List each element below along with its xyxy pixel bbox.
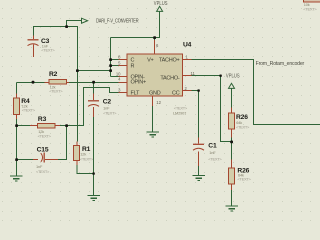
svg-text:TACHO-: TACHO- — [160, 75, 180, 81]
pin 12 stub — [152, 96, 154, 106]
capacitor C2 — [88, 101, 99, 107]
svg-text:<TEXT>: <TEXT> — [237, 176, 251, 181]
wire pin8 — [111, 59, 119, 61]
capacitor C15 (horizontal) — [41, 153, 44, 163]
svg-text:R3: R3 — [38, 116, 47, 123]
R3 leads — [30, 125, 60, 127]
wire R2 row y=81.8 — [17, 82, 119, 84]
wire R3row to C15 right — [58, 126, 67, 160]
node C2 top junction — [92, 81, 95, 84]
resistor R4 — [13, 98, 19, 115]
svg-text:R2: R2 — [49, 71, 58, 78]
pin 1 stub — [183, 59, 192, 61]
capacitor C1 — [193, 144, 204, 150]
component pin stubs (red) — [17, 36, 232, 191]
wire x110 vertical with pin branches — [110, 38, 112, 77]
wire pin6 link green part — [154, 38, 156, 41]
svg-text:<TEXT>: <TEXT> — [36, 169, 50, 174]
ground (C15/R4 net) — [10, 176, 23, 181]
wire R26b bottom — [231, 190, 233, 206]
ground (pin12) — [147, 132, 160, 137]
node x110/x77 junction — [109, 69, 112, 72]
node R26 junction — [230, 141, 233, 144]
pin 6 stub — [154, 40, 156, 54]
wire TACHO- to R26 junction — [192, 76, 232, 142]
svg-text:<TEXT>: <TEXT> — [41, 48, 55, 53]
svg-text:<TEXT>: <TEXT> — [103, 110, 117, 115]
svg-text:From_Rotam_encoder: From_Rotam_encoder — [256, 61, 305, 67]
C1 leads — [198, 138, 200, 167]
power terminal VPLUS right — [229, 83, 235, 88]
svg-text:VPLUS: VPLUS — [226, 74, 240, 80]
capacitor C3 — [28, 40, 39, 46]
svg-text:12: 12 — [156, 100, 161, 105]
svg-text:V+: V+ — [147, 57, 153, 63]
svg-text:<TEXT>: <TEXT> — [22, 108, 36, 113]
resistor R2 — [49, 80, 67, 85]
svg-text:<TEXT>: <TEXT> — [38, 134, 52, 139]
node TACHO- corner — [219, 75, 221, 77]
svg-text:C15: C15 — [37, 147, 49, 154]
svg-text:VPLUS: VPLUS — [154, 1, 168, 7]
svg-text:11: 11 — [191, 71, 196, 76]
node C15/ground junction — [15, 158, 18, 161]
resistor 10k top right corner — [304, 0, 320, 2]
wire nets (green) — [17, 12, 320, 206]
pin 8 stub — [119, 59, 128, 61]
svg-text:CC: CC — [172, 90, 180, 96]
wire R3 row — [17, 88, 119, 126]
node pin6/VPLUS junction — [153, 36, 156, 39]
R26a leads — [231, 108, 233, 138]
svg-text:LM2907: LM2907 — [173, 111, 186, 116]
svg-text:<TEXT>: <TEXT> — [236, 125, 250, 130]
svg-text:<TEXT>: <TEXT> — [208, 156, 222, 161]
wire TACHO+ to right edge — [192, 60, 320, 125]
svg-text:DARI_F-V_CONVERTER: DARI_F-V_CONVERTER — [96, 19, 139, 25]
R4 leads — [16, 94, 18, 120]
pin 11 stub — [183, 75, 192, 77]
node R4/R3 junction — [15, 124, 18, 127]
node pin5 junction — [109, 64, 112, 67]
svg-text:TACHO+: TACHO+ — [159, 57, 180, 63]
node R3/C15 junction — [65, 124, 68, 127]
wire C3 top to DARI corner and down long vertical x=77 — [34, 27, 78, 142]
node CC corner — [197, 89, 199, 91]
node R1/C2 ground junction — [92, 172, 94, 174]
svg-text:FLT: FLT — [131, 90, 141, 96]
svg-text:C1: C1 — [208, 143, 217, 150]
pin numbers — [116, 43, 196, 105]
terminal DARI input arrow — [82, 18, 88, 23]
wire pin10 — [111, 76, 119, 78]
wire R4 top link — [16, 83, 18, 94]
resistor R3 — [38, 123, 56, 128]
node x77 row junction — [76, 69, 79, 72]
wire R4 bottom to R3 row — [16, 119, 18, 160]
node DARI junction — [65, 25, 68, 28]
wire R26a bottom to R26b — [231, 138, 233, 160]
wire pin5 — [111, 65, 119, 67]
ground (C2/R1 net) — [88, 196, 101, 201]
wire VPLUS2 down to R26a — [231, 89, 233, 110]
wire C15 left to G1 — [17, 160, 34, 176]
wire R1 bottom corner — [77, 165, 94, 174]
svg-text:1nF: 1nF — [209, 150, 216, 155]
ground (C1) — [193, 176, 206, 181]
C15 leads — [33, 159, 58, 161]
svg-text:R: R — [131, 63, 135, 69]
svg-text:<TEXT>: <TEXT> — [49, 89, 63, 94]
svg-text:U4: U4 — [183, 42, 192, 49]
resistor R26 upper — [228, 113, 234, 129]
svg-text:GND: GND — [149, 90, 161, 96]
wire C2 top — [93, 83, 95, 94]
svg-text:<TEXT>: <TEXT> — [80, 156, 94, 161]
node C3 bottom junction — [32, 81, 35, 84]
C3 leads — [33, 36, 35, 58]
svg-text:<TEXT>: <TEXT> — [303, 7, 317, 12]
wire x77 to x110 — [78, 70, 111, 72]
C2 leads — [93, 94, 95, 118]
pin 10 stub — [119, 76, 128, 78]
R2 leads — [45, 82, 70, 84]
wire pin12 down — [152, 106, 154, 132]
R1 leads — [76, 142, 78, 166]
power terminal VPLUS top — [157, 6, 163, 11]
ground (R26 lower) — [226, 206, 239, 211]
resistor R26 lower — [228, 168, 234, 184]
svg-text:OPIN+: OPIN+ — [131, 79, 146, 85]
pin 3 stub — [119, 92, 128, 94]
pin 5 stub — [119, 65, 128, 67]
chip pin labels — [131, 57, 180, 96]
wire C1 bottom — [198, 166, 200, 175]
resistor R1 — [74, 146, 80, 161]
node pin8 junction — [109, 58, 112, 61]
wire DARI branch — [67, 21, 82, 27]
pin 4 stub — [119, 82, 128, 84]
wire C2 bottom to ground row — [93, 117, 95, 195]
wire VPLUS1 down — [111, 12, 160, 38]
IC U4 LM2907 body — [127, 54, 183, 96]
wire CC to C1 — [192, 91, 199, 138]
pin 2 stub — [183, 90, 192, 92]
R26b leads — [231, 160, 233, 191]
